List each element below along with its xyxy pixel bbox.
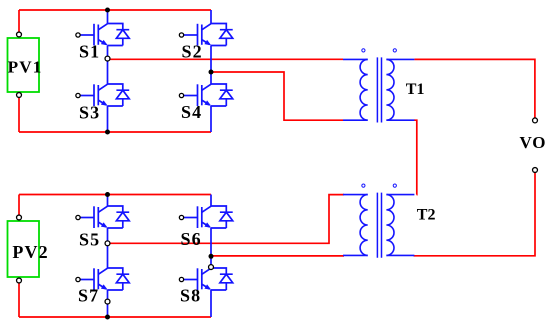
svg-text:VO: VO [520,133,547,152]
svg-text:S4: S4 [181,102,202,122]
svg-text:S3: S3 [79,103,100,123]
svg-text:T2: T2 [417,207,436,224]
svg-text:PV2: PV2 [12,242,48,262]
svg-text:S6: S6 [181,229,202,249]
svg-text:S5: S5 [79,229,100,249]
svg-text:S7: S7 [78,286,99,306]
svg-text:S2: S2 [182,42,203,62]
svg-text:S8: S8 [180,286,201,306]
svg-text:S1: S1 [79,42,100,62]
svg-text:PV1: PV1 [8,58,43,77]
svg-text:T1: T1 [406,81,425,98]
